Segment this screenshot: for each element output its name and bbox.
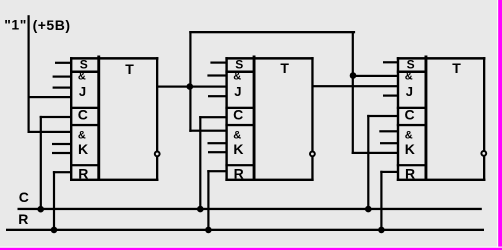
svg-text:C: C <box>78 106 88 122</box>
svg-text:K: K <box>78 141 88 157</box>
svg-text:C: C <box>405 106 415 122</box>
flip-flop D3 T box <box>483 57 485 181</box>
D1 inverted output circle <box>155 152 160 157</box>
junction R bus / D1 <box>51 227 58 234</box>
D1 section divider K/R <box>70 164 99 166</box>
svg-text:"1": "1" <box>4 17 27 33</box>
svg-text:&: & <box>233 130 241 142</box>
D3 section divider K/R <box>397 164 426 166</box>
wire +5V to J input of D1 <box>28 96 71 98</box>
D3 section divider J/C <box>397 107 426 109</box>
wire stub J2 middle of D1 <box>53 87 72 89</box>
svg-text:&: & <box>78 130 86 142</box>
wire stub K2 of D3 <box>380 142 398 144</box>
svg-text:J: J <box>79 84 86 99</box>
wire stub J3 of D2 <box>208 95 227 97</box>
wire stub J1 top of D2 <box>207 74 226 76</box>
junction C bus / D3 <box>365 206 372 213</box>
svg-text:&: & <box>233 71 241 83</box>
D1 section divider C/K <box>70 124 99 126</box>
wire stub K3 of D1 <box>52 152 71 154</box>
wire +5V vertical rail <box>28 15 30 133</box>
svg-text:T: T <box>125 61 134 77</box>
wire stub K2 of D1 <box>52 143 71 145</box>
D2 section divider C/K <box>225 124 254 126</box>
flip-flop D1 T box <box>156 57 158 181</box>
wire D1 out to K input of D2 <box>189 130 227 132</box>
flip-flop D2 control section box <box>225 56 313 182</box>
svg-text:&: & <box>78 71 86 83</box>
svg-text:&: & <box>405 71 413 83</box>
wire stub K3 of D2 <box>208 151 227 153</box>
svg-text:S: S <box>80 58 88 72</box>
junction R bus / D3 <box>378 227 385 234</box>
D2 inverted output circle <box>310 152 315 157</box>
svg-text:R: R <box>18 211 28 227</box>
D3 section divider C/K <box>397 124 426 126</box>
wire D2 output Q to D3 J input <box>312 85 398 87</box>
wire stub K1 top of D3 <box>379 130 398 132</box>
svg-text:R: R <box>405 166 415 182</box>
R bus wire <box>6 229 484 231</box>
svg-text:S: S <box>235 58 243 72</box>
wire feedback riser at x=190 <box>189 31 191 132</box>
wire stub J3 of D3 <box>383 95 398 97</box>
D1 section divider J/C <box>70 107 99 109</box>
junction riser to D3 J top pin <box>350 72 357 79</box>
junction C bus / D1 <box>37 206 44 213</box>
C bus wire <box>18 208 482 210</box>
flip-flop D2 T box <box>311 57 313 181</box>
svg-text:C: C <box>19 189 29 205</box>
svg-text:R: R <box>234 166 244 182</box>
svg-text:T: T <box>280 60 289 76</box>
wire R bus to R pin of D1 <box>53 171 71 231</box>
wire stub S of D3 <box>383 61 398 63</box>
svg-text:T: T <box>452 60 461 76</box>
wire stub J1 top of D1 <box>53 76 72 78</box>
D3 section divider S <box>397 71 426 74</box>
svg-text:J: J <box>406 84 413 99</box>
D2 section divider S <box>225 71 254 74</box>
svg-text:&: & <box>405 130 413 142</box>
wire riser to J1 top pin of D3 <box>353 75 398 77</box>
wire riser at x=352 <box>352 31 354 154</box>
flip-flop D1 control section box <box>70 56 158 182</box>
wire R bus to R pin of D2 <box>207 170 226 231</box>
wire +5V to K input of D1 <box>28 131 72 133</box>
junction R bus / D2 <box>205 227 212 234</box>
power net "1" (+5V) label <box>4 17 70 33</box>
svg-text:J: J <box>234 84 241 99</box>
wire C bus to C pin of D1 <box>40 116 71 209</box>
svg-text:K: K <box>233 141 243 157</box>
svg-text:C: C <box>233 106 243 122</box>
wire D1 output Q to D2 J input <box>157 86 227 88</box>
D2 section divider J/C <box>225 107 254 109</box>
wire stub S of D2 <box>210 62 226 64</box>
wire top link D1 output to D3 J input <box>189 31 355 33</box>
D1 section divider S <box>70 71 99 74</box>
svg-text:K: K <box>405 141 415 157</box>
wire C input stub S of D1 <box>55 62 71 64</box>
wire D1 out to K3 input of D3 <box>352 152 398 154</box>
svg-text:S: S <box>407 58 415 72</box>
wire stub K2 of D2 <box>208 142 227 144</box>
flip-flop D3 control section box <box>397 56 486 182</box>
junction D1 output node <box>187 83 194 90</box>
D3 inverted output circle <box>481 151 486 156</box>
wire C bus to C pin of D3 <box>367 115 398 209</box>
svg-text:R: R <box>78 166 88 182</box>
wire R bus to R pin of D3 <box>380 171 398 231</box>
D2 section divider K/R <box>225 164 254 166</box>
junction C bus / D2 <box>197 206 204 213</box>
wire C bus to C pin of D2 <box>199 116 226 209</box>
svg-text:(+5В): (+5В) <box>33 17 71 33</box>
